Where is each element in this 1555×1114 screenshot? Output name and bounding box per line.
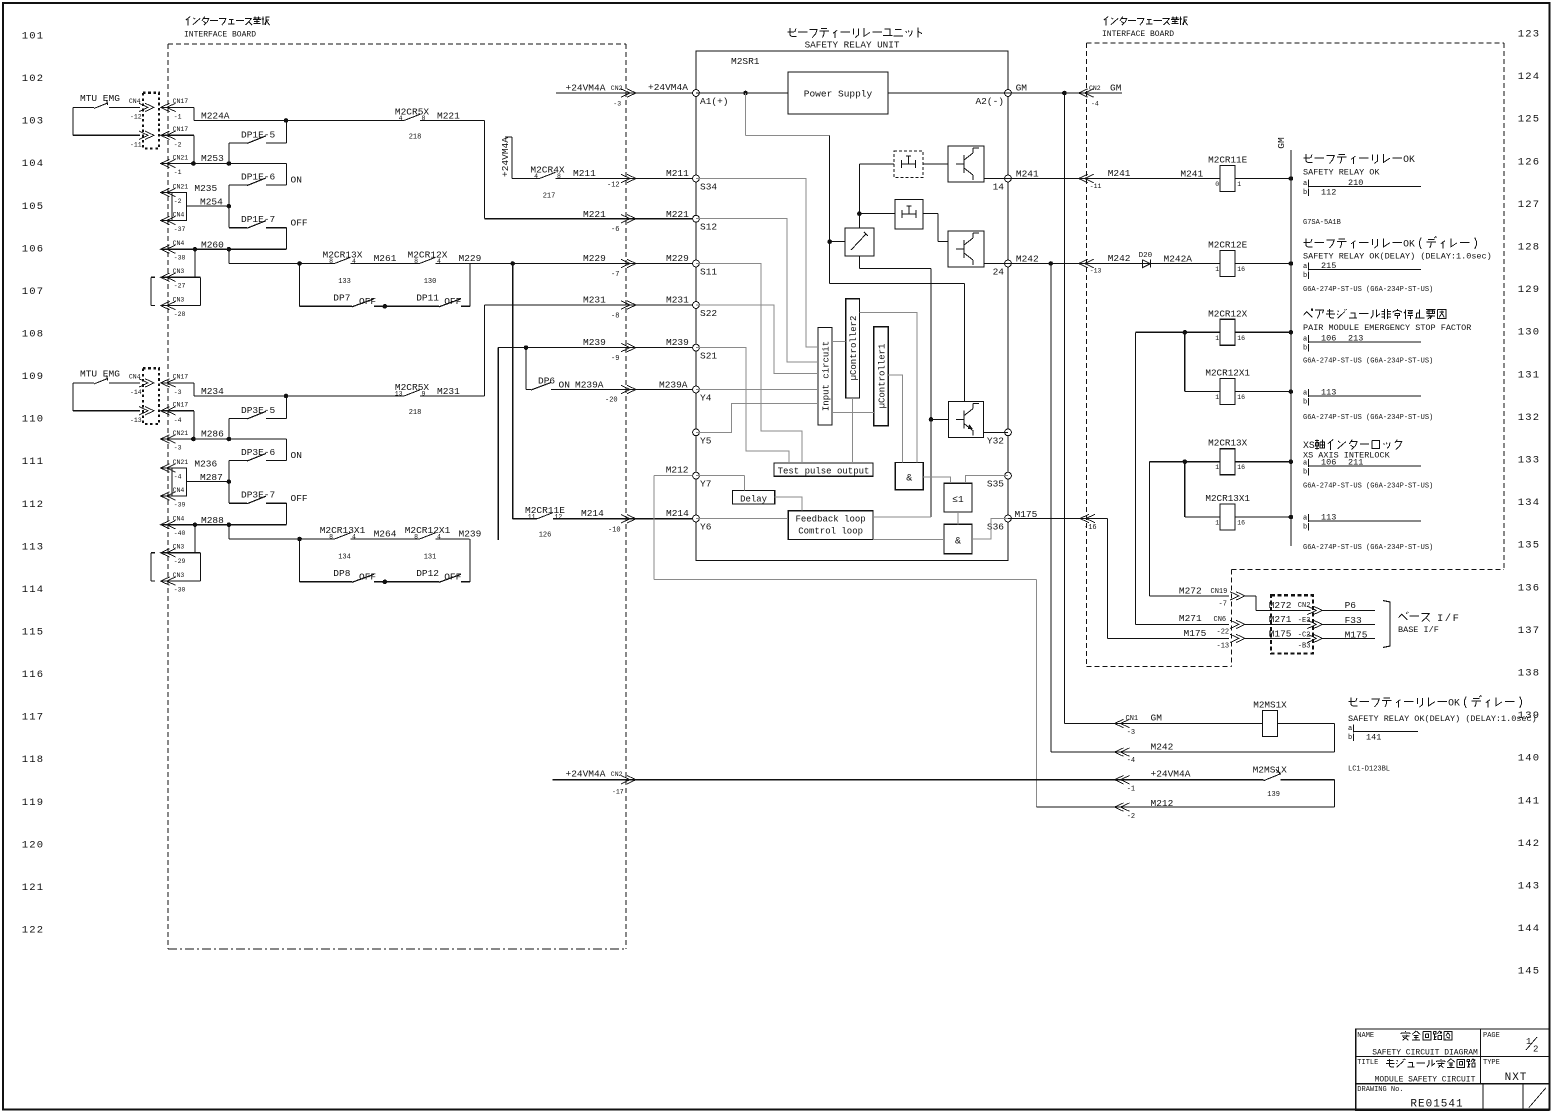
svg-text:DP1E-6: DP1E-6	[241, 172, 276, 183]
svg-text:M224A: M224A	[201, 110, 230, 121]
svg-text:16: 16	[1237, 520, 1245, 527]
svg-text:112: 112	[22, 499, 45, 511]
svg-text:a: a	[1303, 515, 1307, 523]
svg-text:+24VM4A: +24VM4A	[1151, 769, 1191, 780]
svg-text:OFF: OFF	[359, 296, 376, 307]
svg-text:b: b	[1303, 345, 1307, 353]
svg-text:-7: -7	[611, 271, 619, 279]
svg-text:CN21: CN21	[173, 183, 189, 190]
svg-text:+24VM4A: +24VM4A	[566, 83, 606, 94]
svg-text:b: b	[1303, 399, 1307, 407]
svg-text:M253: M253	[201, 153, 224, 164]
svg-text:+24VM4A: +24VM4A	[500, 137, 511, 177]
svg-text:141: 141	[1366, 732, 1381, 742]
svg-text:M231: M231	[666, 295, 689, 306]
svg-text:103: 103	[22, 116, 45, 128]
svg-text:CN2: CN2	[1298, 602, 1311, 610]
svg-text:-27: -27	[174, 283, 186, 290]
svg-text:1: 1	[1215, 266, 1219, 273]
svg-text:Y7: Y7	[700, 479, 711, 490]
svg-text:DP3E-5: DP3E-5	[241, 405, 276, 416]
svg-text:143: 143	[1518, 881, 1541, 893]
svg-text:101: 101	[22, 31, 45, 43]
svg-text:138: 138	[1518, 668, 1541, 680]
svg-text:-6: -6	[611, 226, 619, 234]
svg-text:109: 109	[22, 371, 45, 383]
svg-text:G6A-274P-ST-US (G6A-234P-ST-US: G6A-274P-ST-US (G6A-234P-ST-US)	[1303, 483, 1433, 491]
svg-text:GM: GM	[1110, 83, 1122, 94]
svg-text:16: 16	[1237, 335, 1245, 342]
svg-text:GM: GM	[1151, 712, 1163, 723]
svg-text:1: 1	[1215, 520, 1219, 527]
svg-text:133: 133	[1518, 455, 1541, 467]
svg-text:CN3: CN3	[173, 268, 185, 275]
svg-text:b: b	[1303, 469, 1307, 477]
svg-text:133: 133	[338, 278, 351, 286]
svg-text:123: 123	[1518, 29, 1541, 41]
svg-text:b: b	[1303, 524, 1307, 532]
svg-text:-10: -10	[608, 527, 621, 535]
svg-text:OFF: OFF	[444, 572, 461, 583]
svg-text:8: 8	[329, 258, 333, 265]
svg-text:b: b	[1348, 734, 1352, 742]
svg-text:131: 131	[424, 554, 437, 562]
svg-text:Y6: Y6	[700, 522, 712, 533]
svg-text:XS: XS	[1303, 440, 1315, 451]
svg-text:125: 125	[1518, 114, 1541, 126]
svg-text:-12: -12	[130, 114, 142, 121]
svg-text:RE01541: RE01541	[1410, 1099, 1463, 1111]
svg-text:M239A: M239A	[575, 380, 604, 391]
svg-text:11: 11	[528, 513, 536, 520]
svg-text:-38: -38	[174, 255, 186, 262]
svg-text:DRAWING No.: DRAWING No.	[1357, 1086, 1403, 1094]
svg-text:OFF: OFF	[444, 296, 461, 307]
svg-text:1: 1	[1215, 464, 1219, 471]
svg-text:16: 16	[1237, 464, 1245, 471]
svg-text:132: 132	[1518, 412, 1541, 424]
svg-text:4: 4	[534, 173, 538, 180]
svg-text:TYPE: TYPE	[1483, 1059, 1500, 1067]
svg-text:M288: M288	[201, 515, 224, 526]
svg-text:M211: M211	[573, 168, 596, 179]
svg-text:M254: M254	[200, 197, 223, 208]
svg-text:-B3: -B3	[1298, 643, 1311, 651]
svg-text:A1(+): A1(+)	[700, 96, 729, 107]
svg-text:-14: -14	[130, 389, 142, 396]
svg-text:218: 218	[409, 134, 422, 142]
svg-text:ON: ON	[559, 380, 570, 391]
svg-text:MTU EMG: MTU EMG	[80, 93, 120, 104]
svg-text:SAFETY RELAY OK: SAFETY RELAY OK	[1303, 168, 1380, 178]
svg-text:b: b	[1303, 189, 1307, 197]
svg-text:130: 130	[424, 278, 437, 286]
svg-text:131: 131	[1518, 369, 1541, 381]
svg-text:8: 8	[414, 534, 418, 541]
svg-text:F33: F33	[1345, 615, 1362, 626]
svg-text:CN3: CN3	[173, 572, 185, 579]
svg-text:M2CR12X: M2CR12X	[1208, 308, 1247, 319]
svg-text:M2CR13X1: M2CR13X1	[1205, 493, 1250, 504]
svg-text:µController1: µController1	[877, 344, 887, 409]
svg-text:126: 126	[539, 531, 552, 539]
svg-text:M239A: M239A	[659, 380, 688, 391]
svg-text:M241: M241	[1180, 169, 1203, 180]
svg-text:CN4: CN4	[173, 211, 185, 218]
svg-text:G6A-274P-ST-US (G6A-234P-ST-US: G6A-274P-ST-US (G6A-234P-ST-US)	[1303, 544, 1433, 552]
svg-text:PAIR MODULE EMERGENCY STOP FAC: PAIR MODULE EMERGENCY STOP FACTOR	[1303, 323, 1471, 333]
svg-text:TITLE: TITLE	[1357, 1059, 1378, 1067]
svg-text:102: 102	[22, 73, 45, 85]
svg-text:M175: M175	[1184, 628, 1207, 639]
svg-text:DP1E-7: DP1E-7	[241, 214, 275, 225]
svg-text:135: 135	[1518, 540, 1541, 552]
svg-text:113: 113	[1321, 388, 1336, 398]
svg-text:M241: M241	[1016, 169, 1039, 180]
svg-text:116: 116	[22, 669, 45, 681]
svg-text:M212: M212	[1151, 798, 1174, 809]
svg-text:OFF: OFF	[291, 493, 308, 504]
svg-text:-13: -13	[130, 417, 142, 424]
svg-text:DP6: DP6	[538, 376, 555, 387]
svg-text:MODULE SAFETY CIRCUIT: MODULE SAFETY CIRCUIT	[1375, 1076, 1476, 1085]
svg-text:CN2: CN2	[611, 771, 623, 778]
svg-text:M229: M229	[666, 253, 689, 264]
svg-text:136: 136	[1518, 582, 1541, 594]
svg-text:CN4: CN4	[173, 515, 185, 522]
svg-text:M229: M229	[459, 253, 482, 264]
svg-text:SAFETY RELAY OK(DELAY) (DELAY:: SAFETY RELAY OK(DELAY) (DELAY:1.0sec)	[1303, 252, 1492, 262]
svg-text:a: a	[1303, 263, 1307, 271]
svg-text:Comtrol loop: Comtrol loop	[798, 527, 863, 537]
svg-text:S21: S21	[700, 351, 717, 362]
svg-text:9: 9	[422, 391, 426, 398]
svg-text:Power Supply: Power Supply	[804, 89, 873, 100]
svg-text:CN19: CN19	[1211, 588, 1228, 596]
svg-text:-2: -2	[1127, 813, 1135, 821]
svg-text:CN21: CN21	[173, 459, 189, 466]
svg-text:Y32: Y32	[987, 435, 1004, 446]
svg-text:M271: M271	[1179, 613, 1202, 624]
svg-text:120: 120	[22, 839, 45, 851]
svg-text:117: 117	[22, 712, 45, 724]
svg-text:-22: -22	[1217, 629, 1230, 637]
svg-text:GM: GM	[1276, 137, 1287, 149]
svg-text:CN1: CN1	[1126, 715, 1139, 723]
svg-text:M235: M235	[194, 183, 217, 194]
svg-text:-12: -12	[607, 181, 620, 189]
svg-text:-1: -1	[174, 114, 182, 121]
svg-text:SAFETY RELAY OK(DELAY) (DELAY:: SAFETY RELAY OK(DELAY) (DELAY:1.0sec)	[1348, 714, 1537, 724]
svg-text:-C2: -C2	[1298, 631, 1311, 639]
svg-text:P6: P6	[1345, 600, 1357, 611]
svg-text:-11: -11	[1090, 183, 1102, 190]
svg-text:-9: -9	[611, 355, 619, 363]
svg-text:-8: -8	[611, 312, 619, 320]
svg-text:142: 142	[1518, 838, 1541, 850]
svg-text:GM: GM	[1016, 83, 1028, 94]
svg-text:CN17: CN17	[173, 98, 189, 105]
svg-text:&: &	[906, 474, 912, 485]
svg-text:M214: M214	[666, 508, 689, 519]
svg-text:112: 112	[1321, 188, 1336, 198]
svg-text:M2CR11E: M2CR11E	[1208, 155, 1247, 166]
svg-text:a: a	[1303, 460, 1307, 468]
svg-text:M239: M239	[583, 337, 606, 348]
svg-text:G7SA-5A1B: G7SA-5A1B	[1303, 219, 1341, 227]
svg-text:104: 104	[22, 158, 45, 170]
svg-text:M221: M221	[666, 209, 689, 220]
svg-text:A2(-): A2(-)	[975, 96, 1004, 107]
svg-text:-29: -29	[174, 558, 186, 565]
svg-text:-2: -2	[174, 142, 182, 149]
svg-text:Y4: Y4	[700, 393, 712, 404]
svg-text:134: 134	[338, 554, 351, 562]
svg-text:DP3E-6: DP3E-6	[241, 447, 276, 458]
svg-text:M286: M286	[201, 429, 224, 440]
svg-text:145: 145	[1518, 966, 1541, 978]
svg-text:211: 211	[1348, 458, 1363, 468]
svg-text:G6A-274P-ST-US (G6A-234P-ST-US: G6A-274P-ST-US (G6A-234P-ST-US)	[1303, 414, 1433, 422]
svg-text:127: 127	[1518, 199, 1541, 211]
svg-text:-30: -30	[174, 586, 186, 593]
svg-text:114: 114	[22, 584, 45, 596]
svg-text:Delay: Delay	[740, 494, 768, 504]
svg-text:CN17: CN17	[173, 401, 189, 408]
svg-text:M264: M264	[374, 529, 397, 540]
svg-text:-3: -3	[613, 101, 621, 108]
svg-text:Test pulse output: Test pulse output	[778, 467, 870, 477]
svg-text:13: 13	[395, 391, 403, 398]
svg-text:≤1: ≤1	[952, 494, 964, 505]
svg-text:130: 130	[1518, 327, 1541, 339]
svg-text:126: 126	[1518, 156, 1541, 168]
svg-text:-4: -4	[1091, 101, 1099, 108]
svg-text:M239: M239	[666, 337, 689, 348]
svg-text:121: 121	[22, 882, 45, 894]
svg-text:8: 8	[422, 115, 426, 122]
svg-text:CN21: CN21	[173, 154, 189, 161]
svg-text:ON: ON	[291, 450, 302, 461]
svg-text:140: 140	[1518, 753, 1541, 765]
svg-text:CN21: CN21	[173, 430, 189, 437]
svg-text:M261: M261	[374, 253, 397, 264]
svg-text:Input circuit: Input circuit	[822, 341, 832, 411]
svg-text:24: 24	[993, 267, 1005, 278]
svg-text:a: a	[1303, 180, 1307, 188]
svg-text:DP8: DP8	[333, 568, 350, 579]
svg-text:1: 1	[1237, 181, 1241, 188]
svg-text:+24VM4A: +24VM4A	[648, 82, 688, 93]
svg-text:S11: S11	[700, 267, 717, 278]
svg-text:107: 107	[22, 286, 45, 298]
svg-text:S22: S22	[700, 308, 717, 319]
svg-text:CN4: CN4	[129, 374, 141, 381]
svg-text:Feedback loop: Feedback loop	[795, 515, 865, 525]
svg-text:INTERFACE BOARD: INTERFACE BOARD	[1102, 30, 1174, 39]
svg-text:213: 213	[1348, 334, 1363, 344]
svg-text:-40: -40	[174, 530, 186, 537]
svg-text:M239: M239	[459, 529, 482, 540]
svg-text:CN17: CN17	[173, 126, 189, 133]
svg-text:-39: -39	[174, 502, 186, 509]
svg-text:NAME: NAME	[1357, 1032, 1374, 1040]
svg-text:M231: M231	[437, 386, 460, 397]
svg-text:-28: -28	[174, 311, 186, 318]
svg-text:-3: -3	[1127, 729, 1135, 737]
svg-text:108: 108	[22, 328, 45, 340]
svg-text:+24VM4A: +24VM4A	[566, 768, 606, 779]
svg-text:SAFETY RELAY UNIT: SAFETY RELAY UNIT	[805, 39, 900, 50]
svg-text:M2MS1X: M2MS1X	[1253, 765, 1288, 776]
svg-text:0: 0	[1215, 181, 1219, 188]
svg-text:M175: M175	[1345, 630, 1368, 641]
svg-text:128: 128	[1518, 242, 1541, 254]
svg-text:106: 106	[22, 243, 45, 255]
svg-text:Y5: Y5	[700, 435, 712, 446]
svg-text:OFF: OFF	[359, 572, 376, 583]
svg-text:139: 139	[1267, 791, 1280, 799]
svg-text:113: 113	[22, 541, 45, 553]
svg-text:µController2: µController2	[849, 316, 859, 381]
svg-text:2: 2	[1533, 1045, 1538, 1055]
svg-text:M234: M234	[201, 386, 224, 397]
svg-text:BASE I/F: BASE I/F	[1398, 625, 1439, 635]
svg-text:NXT: NXT	[1505, 1072, 1528, 1084]
svg-text:M2MS1X: M2MS1X	[1253, 700, 1287, 711]
svg-text:&: &	[955, 537, 961, 548]
svg-text:DP11: DP11	[416, 293, 439, 304]
svg-text:OK: OK	[1403, 154, 1415, 165]
svg-text:OK: OK	[1403, 239, 1415, 250]
svg-text:M287: M287	[200, 472, 223, 483]
svg-text:M272: M272	[1179, 586, 1202, 597]
svg-text:M242A: M242A	[1164, 253, 1193, 264]
svg-text:-16: -16	[1084, 524, 1097, 532]
svg-text:-1: -1	[174, 169, 182, 176]
svg-text:DP7: DP7	[333, 293, 350, 304]
svg-text:215: 215	[1321, 261, 1336, 271]
svg-text:DP3E-7: DP3E-7	[241, 490, 275, 501]
svg-text:M260: M260	[201, 240, 224, 251]
svg-text:-2: -2	[174, 198, 182, 205]
svg-text:S34: S34	[700, 182, 717, 193]
svg-text:-4: -4	[174, 417, 182, 424]
svg-text:M242: M242	[1016, 253, 1039, 264]
svg-text:I/F: I/F	[1437, 613, 1460, 625]
svg-text:118: 118	[22, 754, 45, 766]
svg-text:113: 113	[1321, 513, 1336, 523]
svg-text:a: a	[1348, 725, 1352, 733]
svg-text:14: 14	[993, 182, 1005, 193]
svg-text:M231: M231	[583, 295, 606, 306]
svg-text:16: 16	[1237, 394, 1245, 401]
svg-text:S36: S36	[987, 522, 1004, 533]
svg-text:D20: D20	[1139, 252, 1153, 260]
svg-text:217: 217	[543, 193, 556, 201]
svg-text:SAFETY CIRCUIT DIAGRAM: SAFETY CIRCUIT DIAGRAM	[1372, 1048, 1478, 1057]
svg-text:16: 16	[1237, 266, 1245, 273]
svg-text:CN6: CN6	[1214, 616, 1227, 624]
svg-text:-37: -37	[174, 226, 186, 233]
svg-text:CN17: CN17	[173, 374, 189, 381]
svg-text:CN4: CN4	[129, 98, 141, 105]
svg-text:CN2: CN2	[611, 85, 623, 92]
svg-text:115: 115	[22, 626, 45, 638]
svg-text:-17: -17	[612, 789, 624, 796]
svg-text:106: 106	[1321, 458, 1336, 468]
svg-text:XS AXIS INTERLOCK: XS AXIS INTERLOCK	[1303, 451, 1391, 461]
svg-text:b: b	[1303, 272, 1307, 280]
svg-text:129: 129	[1518, 284, 1541, 296]
svg-text:-4: -4	[174, 474, 182, 481]
svg-text:105: 105	[22, 201, 45, 213]
svg-text:-3: -3	[174, 389, 182, 396]
svg-text:DP12: DP12	[416, 568, 439, 579]
svg-text:122: 122	[22, 924, 45, 936]
svg-text:M212: M212	[666, 465, 689, 476]
svg-text:8: 8	[414, 258, 418, 265]
svg-text:ON: ON	[291, 175, 302, 186]
svg-text:119: 119	[22, 797, 45, 809]
svg-text:M2CR12X1: M2CR12X1	[1205, 368, 1250, 379]
svg-text:M229: M229	[583, 253, 606, 264]
svg-text:OFF: OFF	[291, 218, 308, 229]
svg-text:124: 124	[1518, 71, 1541, 83]
svg-text:M214: M214	[581, 508, 604, 519]
svg-text:M221: M221	[583, 209, 606, 220]
svg-text:137: 137	[1518, 625, 1541, 637]
svg-text:111: 111	[22, 456, 45, 468]
svg-text:-13: -13	[1217, 643, 1230, 651]
svg-text:a: a	[1303, 336, 1307, 344]
svg-text:S12: S12	[700, 222, 717, 233]
svg-text:M241: M241	[1108, 168, 1131, 179]
svg-text:S35: S35	[987, 479, 1004, 490]
svg-text:134: 134	[1518, 497, 1541, 509]
svg-text:-20: -20	[605, 397, 618, 405]
svg-text:CN3: CN3	[173, 544, 185, 551]
svg-text:106: 106	[1321, 334, 1336, 344]
svg-text:DP1E-5: DP1E-5	[241, 130, 276, 141]
svg-text:8: 8	[329, 534, 333, 541]
svg-text:210: 210	[1348, 178, 1363, 188]
svg-text:CN4: CN4	[173, 487, 185, 494]
svg-text:4: 4	[399, 115, 403, 122]
svg-text:-3: -3	[174, 445, 182, 452]
svg-text:G6A-274P-ST-US (G6A-234P-ST-US: G6A-274P-ST-US (G6A-234P-ST-US)	[1303, 358, 1433, 366]
svg-text:-11: -11	[130, 142, 142, 149]
svg-text:a: a	[1303, 390, 1307, 398]
svg-text:M221: M221	[437, 110, 460, 121]
svg-text:CN4: CN4	[173, 240, 185, 247]
svg-text:110: 110	[22, 414, 45, 426]
svg-text:218: 218	[409, 409, 422, 417]
svg-text:-1: -1	[1127, 785, 1135, 793]
svg-text:1: 1	[1215, 335, 1219, 342]
svg-text:-7: -7	[1219, 601, 1227, 609]
svg-text:-4: -4	[1127, 757, 1135, 765]
svg-text:M242: M242	[1151, 742, 1174, 753]
svg-text:MTU EMG: MTU EMG	[80, 369, 120, 380]
svg-text:M211: M211	[666, 168, 689, 179]
svg-text:M2CR12E: M2CR12E	[1208, 240, 1247, 251]
svg-text:M236: M236	[194, 459, 217, 470]
svg-text:M2CR12X1: M2CR12X1	[405, 525, 451, 536]
svg-text:M242: M242	[1108, 253, 1131, 264]
svg-text:141: 141	[1518, 795, 1541, 807]
svg-text:CN2: CN2	[1089, 85, 1101, 92]
